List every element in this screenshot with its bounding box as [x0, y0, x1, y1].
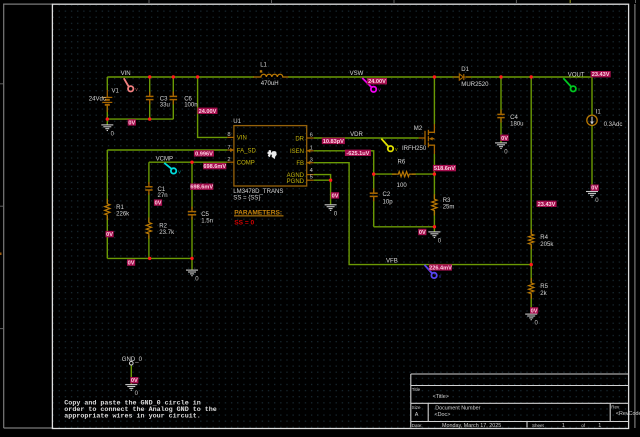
- voltage probe VSW magenta: [362, 78, 376, 92]
- pin 7 FA_SD input arrow: [230, 148, 234, 152]
- capacitor C5: [188, 207, 196, 220]
- wire: [107, 106, 173, 125]
- svg-text:COMP: COMP: [237, 161, 255, 167]
- svg-text:0V: 0V: [106, 232, 113, 238]
- svg-text:<Doc>: <Doc>: [435, 412, 451, 418]
- node VOUT-C4 junction: [499, 75, 502, 78]
- voltage probe VOUT green: [563, 78, 576, 91]
- wire: [106, 77, 108, 90]
- svg-text:33u: 33u: [160, 102, 170, 108]
- svg-text:VSW: VSW: [350, 71, 364, 77]
- svg-text:0V: 0V: [155, 201, 162, 207]
- svg-text:R1: R1: [116, 205, 124, 211]
- node VIN-C3 junction: [148, 75, 151, 78]
- node COMP-C5 junction: [190, 161, 193, 164]
- svg-text:1: 1: [562, 423, 565, 429]
- svg-text:24Vdc: 24Vdc: [89, 97, 106, 103]
- svg-text:0V: 0V: [128, 261, 135, 267]
- ground 0 at R3: [428, 232, 440, 238]
- ground 0 analog: [186, 270, 198, 276]
- capacitor C6: [170, 92, 178, 105]
- wire: [107, 257, 192, 259]
- svg-text:0.3Adc: 0.3Adc: [604, 122, 623, 128]
- bias label 518.6nV on R6-R3: [433, 165, 456, 171]
- wire: [530, 245, 532, 283]
- ground 0 at I1: [586, 192, 598, 198]
- op-amp/controller U1 LM3478D_TRANS: [234, 126, 307, 186]
- svg-text:226.4mV: 226.4mV: [429, 265, 452, 271]
- svg-text:L1: L1: [260, 63, 267, 69]
- svg-text:LM3478D_TRANS: LM3478D_TRANS: [233, 189, 283, 195]
- node R3-gnd junction: [433, 225, 436, 228]
- svg-text:205k: 205k: [540, 242, 554, 248]
- svg-text:DR: DR: [295, 136, 304, 142]
- wire: [149, 161, 227, 163]
- capacitor C1: [145, 182, 152, 195]
- wire: [288, 76, 459, 78]
- voltage probe VIN red: [124, 78, 134, 91]
- current source I1: [587, 115, 597, 125]
- svg-text:518.6nV: 518.6nV: [434, 166, 455, 172]
- svg-text:1: 1: [310, 146, 313, 152]
- bias label 0V on vin return: [128, 119, 136, 125]
- svg-text:10.83pV: 10.83pV: [323, 139, 344, 145]
- wire: [591, 126, 593, 192]
- wire: [433, 154, 435, 232]
- pin 3 FB input arrow: [307, 161, 311, 165]
- svg-text:27n: 27n: [158, 193, 168, 199]
- svg-text:698.6mV: 698.6mV: [190, 185, 213, 191]
- bias label 226.4mV on VFB: [429, 264, 452, 270]
- wire: [172, 77, 174, 119]
- node C5-bot junction: [190, 257, 193, 260]
- wire: [106, 150, 108, 258]
- node V1-gnd junction: [106, 117, 109, 120]
- svg-text:MUR2520: MUR2520: [461, 82, 489, 88]
- bias label 23.43V on VOUT: [591, 71, 611, 77]
- wire: [500, 77, 502, 143]
- svg-text:0.996V: 0.996V: [195, 151, 213, 157]
- node PGND-j junction: [329, 179, 332, 182]
- svg-text:180u: 180u: [510, 122, 523, 128]
- svg-text:R5: R5: [540, 284, 548, 290]
- bias label 698.6mV on C5: [190, 184, 213, 190]
- svg-text:23.43V: 23.43V: [538, 202, 556, 208]
- bias label 0V on GND_0: [130, 377, 138, 383]
- node VOUT-R4 junction: [530, 75, 533, 78]
- node C3-bot junction: [148, 117, 151, 120]
- capacitor C2: [370, 188, 378, 201]
- svg-text:24.00V: 24.00V: [199, 109, 217, 115]
- svg-text:0V: 0V: [128, 120, 135, 126]
- svg-text:SS = 0: SS = 0: [234, 219, 254, 226]
- node R2-bot junction: [148, 257, 151, 260]
- bias label 24.00V on VSW: [367, 78, 387, 84]
- svg-text:7: 7: [227, 145, 230, 151]
- svg-text:Date:: Date:: [412, 423, 423, 428]
- svg-text:0V: 0V: [591, 186, 598, 192]
- svg-text:24.00V: 24.00V: [368, 79, 386, 85]
- svg-text:VOUT: VOUT: [568, 73, 585, 79]
- transistor M2 IRFH250: [419, 124, 435, 154]
- svg-text:<RevCode>: <RevCode>: [616, 411, 640, 417]
- bias label 0V on R5 gnd: [530, 307, 538, 313]
- node VIN-U1 junction: [196, 75, 199, 78]
- bias label 0V on I1 gnd: [591, 185, 599, 191]
- svg-text:Sheet: Sheet: [532, 423, 545, 428]
- title block: [411, 374, 629, 427]
- bias label 10.83pV on VDR: [322, 138, 345, 144]
- svg-text:Size: Size: [412, 405, 421, 410]
- voltage probe VCMP cyan: [164, 163, 176, 174]
- bias label 0V on analog bottom: [127, 259, 135, 265]
- svg-text:2k: 2k: [540, 291, 547, 297]
- svg-text:FB: FB: [296, 161, 304, 167]
- svg-text:C2: C2: [383, 192, 391, 198]
- svg-text:0V: 0V: [332, 193, 339, 199]
- wire: [148, 162, 150, 258]
- voltage probe VFB violet: [425, 265, 437, 278]
- svg-text:1: 1: [598, 423, 601, 429]
- svg-text:VIN: VIN: [121, 71, 131, 77]
- svg-text:0V: 0V: [531, 308, 538, 314]
- svg-text:R4: R4: [540, 235, 548, 241]
- voltage source V1: [102, 90, 112, 112]
- diode D1: [453, 74, 471, 80]
- svg-text:100n: 100n: [184, 102, 197, 108]
- bias label 0V on C1-R2: [154, 199, 162, 205]
- svg-text:100: 100: [397, 183, 408, 189]
- bias label 0V on C4 gnd: [500, 135, 508, 141]
- bias label 23.43V on R4 top: [537, 201, 557, 207]
- svg-text:D1: D1: [461, 67, 469, 73]
- ground 0 at AGND: [325, 205, 337, 211]
- wire: [107, 149, 227, 151]
- svg-text:-625.1uV: -625.1uV: [346, 151, 369, 157]
- ground 0 at GND_0: [125, 385, 137, 391]
- resistor R6: [392, 172, 416, 177]
- svg-text:PGND: PGND: [287, 179, 305, 185]
- svg-text:I1: I1: [596, 110, 602, 116]
- svg-text:10p: 10p: [383, 199, 394, 205]
- svg-text:25m: 25m: [443, 205, 455, 211]
- capacitor C3: [146, 92, 154, 105]
- wire: [591, 77, 593, 115]
- svg-text:23.7k: 23.7k: [159, 230, 175, 236]
- wire: [314, 163, 532, 265]
- svg-text:GND_0: GND_0: [122, 357, 143, 363]
- wire: [107, 76, 254, 78]
- bias label 0V on R3 gnd: [418, 229, 426, 235]
- node R6-R3 junction: [433, 172, 436, 175]
- bias label 0.996V on FA_SD: [194, 150, 214, 156]
- svg-text:1.5n: 1.5n: [201, 219, 213, 225]
- wire: [433, 77, 435, 124]
- svg-text:Rev: Rev: [611, 405, 620, 410]
- pin 1 ISEN input arrow: [307, 149, 311, 153]
- wire: [314, 179, 331, 181]
- capacitor C4: [497, 110, 504, 123]
- wire: [149, 77, 151, 119]
- svg-text:R2: R2: [159, 223, 167, 229]
- svg-text:Title: Title: [412, 387, 421, 392]
- TI logo inside U1: [267, 150, 272, 157]
- svg-text:5: 5: [310, 175, 313, 181]
- bias label -625.1uV on ISEN: [345, 150, 371, 156]
- ground 0 at R5: [525, 314, 537, 320]
- voltage probe VDR yellow: [381, 139, 393, 152]
- resistor R1: [105, 199, 110, 220]
- wire: [373, 174, 375, 227]
- wire: [530, 294, 532, 314]
- svg-text:VCMP: VCMP: [156, 156, 173, 162]
- node ISEN-C2 junction: [372, 172, 375, 175]
- wire: [314, 175, 331, 205]
- wire: [191, 162, 193, 270]
- svg-text:IRFH250: IRFH250: [402, 146, 427, 152]
- svg-text:6: 6: [310, 133, 313, 139]
- wire: [374, 226, 435, 228]
- svg-text:Monday, March 17, 2025: Monday, March 17, 2025: [442, 423, 501, 429]
- U1 pin stubs: [227, 137, 313, 180]
- svg-text:0V: 0V: [419, 230, 426, 236]
- wire: [314, 137, 419, 139]
- inductor L1: [253, 74, 288, 77]
- svg-text:VIN: VIN: [237, 136, 247, 142]
- node VIN-C6 junction: [172, 75, 175, 78]
- svg-text:M2: M2: [414, 126, 423, 132]
- svg-text:0V: 0V: [131, 378, 138, 384]
- svg-text:C5: C5: [201, 212, 209, 218]
- svg-text:R6: R6: [398, 160, 406, 166]
- resistor R2: [146, 218, 151, 239]
- resistor R3: [432, 194, 437, 215]
- wire: [198, 77, 228, 137]
- svg-text:698.6mV: 698.6mV: [203, 164, 226, 170]
- resistor R4: [529, 229, 534, 249]
- bias label 0V on AGND: [331, 192, 339, 198]
- svg-text:VDR: VDR: [350, 132, 363, 138]
- wire: [130, 365, 132, 385]
- svg-text:V1: V1: [112, 89, 120, 95]
- bias label 24.00V on VIN: [197, 108, 217, 114]
- svg-text:C4: C4: [510, 115, 518, 121]
- svg-text:A: A: [415, 412, 419, 418]
- node VFB-div junction: [530, 263, 533, 266]
- wire: [466, 76, 592, 78]
- ground 0 at C4: [495, 143, 507, 149]
- ground 0 at V1: [101, 125, 113, 131]
- bias label 0V on R1: [106, 231, 114, 237]
- resistor R5: [529, 278, 534, 299]
- net connector GND_0: [130, 361, 134, 365]
- svg-text:Document Number: Document Number: [435, 406, 480, 412]
- svg-text:2: 2: [227, 157, 230, 163]
- svg-text:VFB: VFB: [386, 259, 398, 265]
- node VSW-M2 junction: [433, 75, 436, 78]
- svg-text:SS = {SS}: SS = {SS}: [233, 196, 260, 202]
- svg-text:ISEN: ISEN: [290, 149, 304, 155]
- svg-text:FA_SD: FA_SD: [237, 148, 257, 154]
- svg-text:23.43V: 23.43V: [592, 72, 610, 78]
- svg-text:3: 3: [310, 157, 313, 163]
- svg-text:appropriate wires in your circ: appropriate wires in your circuit.: [64, 413, 200, 421]
- bias label 698.6mV on COMP: [203, 163, 226, 169]
- svg-text:8: 8: [227, 132, 230, 138]
- wire: [314, 151, 374, 174]
- svg-text:U1: U1: [233, 119, 241, 125]
- svg-text:<Title>: <Title>: [433, 394, 449, 400]
- svg-text:R3: R3: [443, 198, 451, 204]
- svg-text:470uH: 470uH: [261, 81, 279, 87]
- svg-text:0V: 0V: [501, 136, 508, 142]
- wire: [374, 173, 435, 175]
- wire: [530, 77, 532, 234]
- svg-text:226k: 226k: [116, 212, 130, 218]
